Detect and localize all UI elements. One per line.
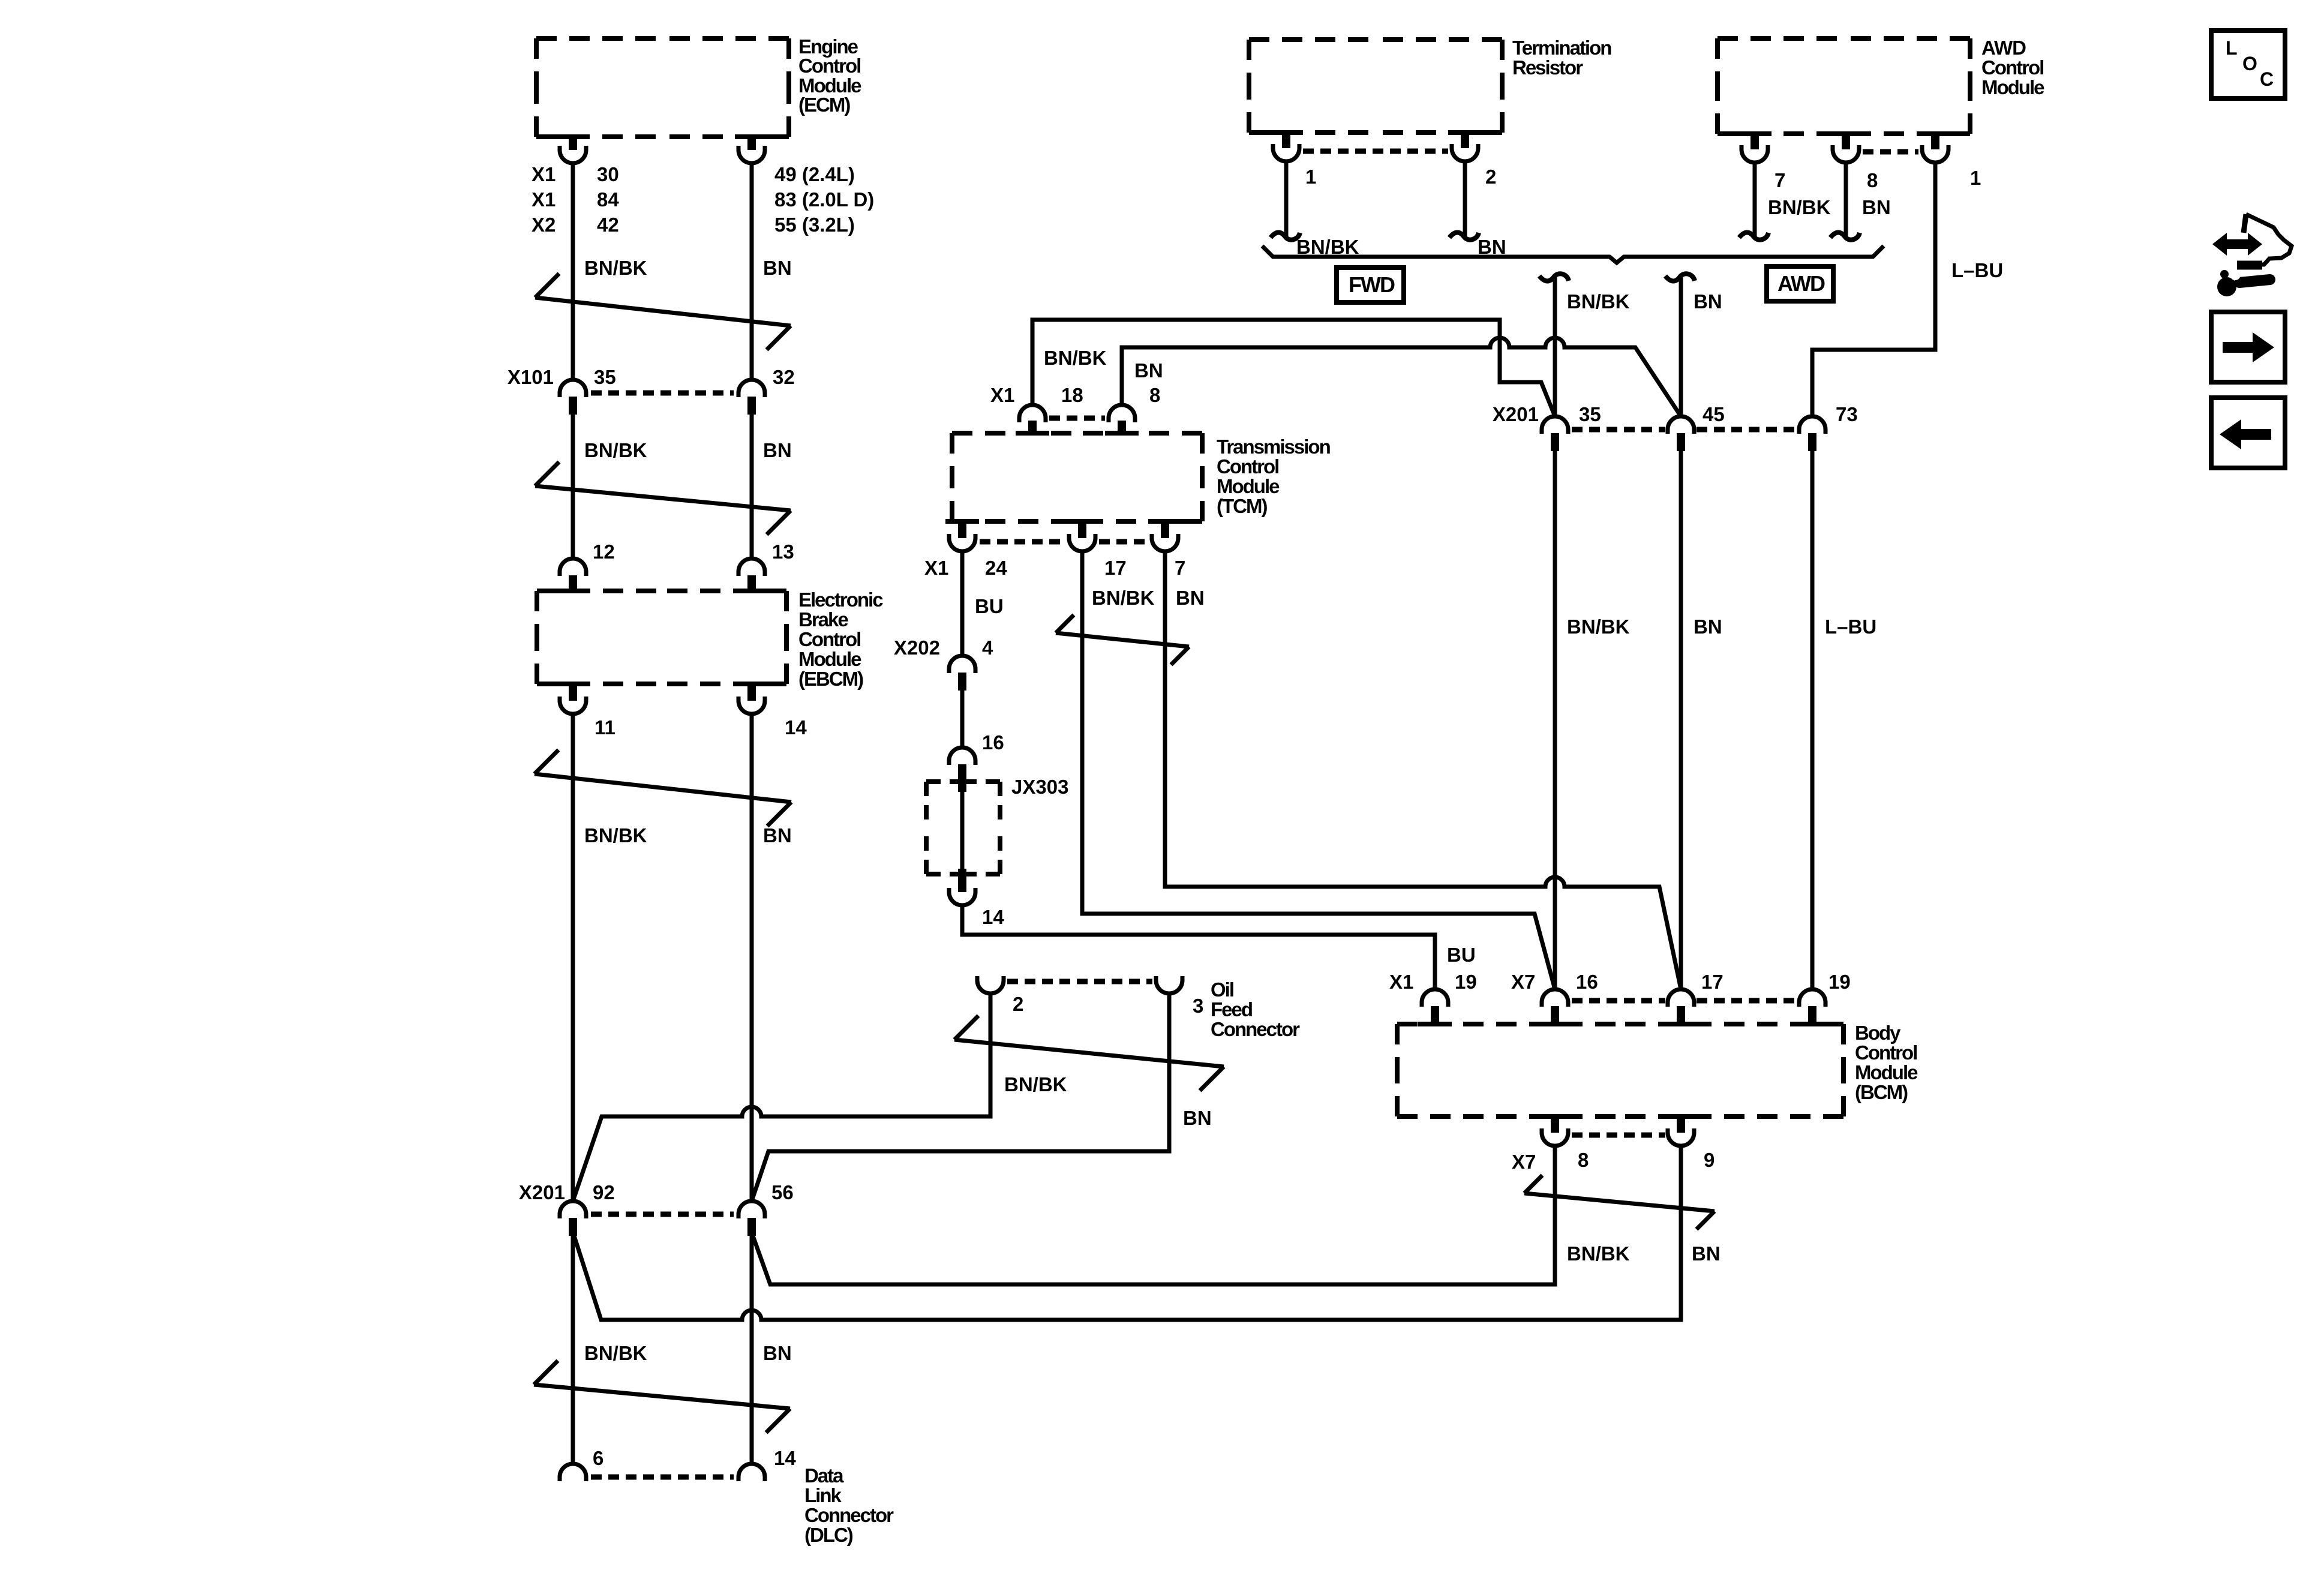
svg-text:84: 84 xyxy=(597,188,619,211)
dashed connector line termination resistor xyxy=(1303,149,1448,154)
svg-text:(EBCM): (EBCM) xyxy=(798,668,863,690)
label Oil Feed Connector xyxy=(1211,978,1300,1040)
label BN/BK xyxy=(584,439,647,461)
svg-text:9: 9 xyxy=(1704,1149,1715,1171)
label 4 xyxy=(982,637,993,659)
dashed connector line X201 left xyxy=(591,1212,734,1217)
svg-text:X1: X1 xyxy=(1389,971,1413,993)
wire L-BU X201-73 to BCM X7-19 xyxy=(1810,451,1815,989)
svg-text:55 (3.2L): 55 (3.2L) xyxy=(774,214,855,236)
label Engine Control Module (ECM) xyxy=(798,35,861,116)
BCM pin X7-9 connector xyxy=(1664,1116,1698,1146)
svg-text:Module: Module xyxy=(798,648,861,670)
svg-text:BN: BN xyxy=(1694,290,1722,313)
svg-text:17: 17 xyxy=(1701,971,1724,993)
wire BN TCM-8 to X201-45 xyxy=(1122,338,1681,416)
oil feed connector pin 2 xyxy=(977,976,1004,993)
inline connector X101 pin 32 xyxy=(738,380,765,415)
icon LOC box xyxy=(2211,31,2285,98)
label AWD Control Module xyxy=(1981,37,2044,98)
wire BN AWD-8 to bus xyxy=(1830,164,1860,240)
svg-text:8: 8 xyxy=(1578,1149,1589,1171)
BCM pin X7-17 connector xyxy=(1664,989,1698,1024)
svg-text:19: 19 xyxy=(1455,971,1477,993)
AWD pin 8 connector xyxy=(1829,134,1863,163)
svg-text:16: 16 xyxy=(982,731,1004,754)
label BN/BK xyxy=(1567,290,1630,313)
svg-text:7: 7 xyxy=(1175,557,1185,579)
wire BN/BK oil-2 to X201-92 junction xyxy=(573,995,990,1201)
label BN xyxy=(763,1342,792,1364)
module TCM box xyxy=(952,433,1202,521)
svg-text:73: 73 xyxy=(1836,403,1858,425)
EBCM pin 13 connector xyxy=(735,559,768,591)
label BN xyxy=(1183,1107,1212,1129)
label 45 xyxy=(1703,403,1725,425)
label 19 xyxy=(1828,971,1851,993)
svg-text:X7: X7 xyxy=(1511,971,1535,993)
svg-text:BN: BN xyxy=(1176,587,1205,609)
svg-text:O: O xyxy=(2242,53,2257,74)
label X7 xyxy=(1512,1151,1536,1173)
svg-text:BN: BN xyxy=(763,257,792,279)
svg-text:X1: X1 xyxy=(990,384,1014,406)
svg-text:7: 7 xyxy=(1774,169,1785,191)
svg-text:X101: X101 xyxy=(508,366,554,388)
label BN/BK xyxy=(1004,1073,1067,1095)
label X1 xyxy=(1389,971,1413,993)
AWD pin 1 connector xyxy=(1918,134,1952,163)
break mark TCM section xyxy=(1056,615,1189,665)
label BN xyxy=(1134,359,1163,382)
TCM pin X1-7 connector xyxy=(1148,521,1182,551)
svg-text:L: L xyxy=(2226,37,2238,59)
svg-text:(DLC): (DLC) xyxy=(804,1524,853,1546)
svg-text:35: 35 xyxy=(594,366,616,388)
wire BN termination-2 to bus xyxy=(1449,163,1479,240)
wire BU through JX303 xyxy=(960,783,965,874)
break mark BCM section xyxy=(1524,1175,1715,1229)
dashed connector line BCM bottom xyxy=(1572,1133,1665,1138)
svg-text:BN: BN xyxy=(1478,236,1506,258)
label 1 xyxy=(1970,167,1981,189)
wire BN/BK X201-35 to BCM X7-16 xyxy=(1553,451,1557,989)
svg-text:X7: X7 xyxy=(1512,1151,1536,1173)
wire BN/BK AWD-7 to bus xyxy=(1739,164,1768,240)
icon diagnostic double arrow xyxy=(2212,233,2262,256)
Termination Resistor pin 2 connector xyxy=(1448,133,1482,161)
svg-text:Module: Module xyxy=(1217,475,1280,497)
wire BN ECM-49 to X101-32 xyxy=(750,164,754,380)
inline connector X101 pin 35 xyxy=(560,380,586,415)
wire BN EBCM-14 to X201-56 xyxy=(750,715,754,1201)
label 8 xyxy=(1149,384,1160,406)
label L-BU xyxy=(1951,259,2003,281)
svg-text:35: 35 xyxy=(1579,403,1601,425)
svg-text:4: 4 xyxy=(982,637,993,659)
svg-text:Resistor: Resistor xyxy=(1512,56,1583,79)
TCM pin X1-24 connector xyxy=(945,521,979,551)
svg-text:BU: BU xyxy=(1447,944,1476,966)
svg-text:Oil: Oil xyxy=(1211,978,1233,1001)
svg-text:Feed: Feed xyxy=(1211,998,1252,1020)
connector DLC pin 14 xyxy=(738,1464,765,1481)
TCM pin X1-17 connector xyxy=(1065,521,1099,551)
ECM pin 30 connector xyxy=(556,137,590,163)
svg-text:Connector: Connector xyxy=(1211,1018,1300,1040)
svg-text:L–BU: L–BU xyxy=(1825,616,1876,638)
BCM pin X1-19 connector xyxy=(1418,989,1452,1024)
svg-text:(TCM): (TCM) xyxy=(1217,495,1267,517)
svg-text:X201: X201 xyxy=(519,1181,565,1203)
label ECM right pin rows 49/83/55 xyxy=(774,163,874,236)
svg-text:JX303: JX303 xyxy=(1011,776,1068,798)
svg-text:56: 56 xyxy=(771,1181,794,1203)
svg-text:Connector: Connector xyxy=(804,1504,894,1526)
wire BN/BK TCM-17 to BCM X7-16 xyxy=(1082,553,1555,989)
wire BN X201-45 to BCM X7-17 xyxy=(1679,451,1683,989)
svg-text:BN/BK: BN/BK xyxy=(584,257,647,279)
inline connector 16 at JX303 xyxy=(949,748,975,792)
wire BU JX303-14 to BCM X1-19 xyxy=(962,905,1435,989)
svg-text:Control: Control xyxy=(1855,1041,1917,1064)
EBCM pin 12 connector xyxy=(556,559,590,591)
svg-text:3: 3 xyxy=(1193,995,1203,1017)
label 16 xyxy=(982,731,1004,754)
svg-text:45: 45 xyxy=(1703,403,1725,425)
label BN/BK xyxy=(1768,196,1831,218)
svg-text:BN/BK: BN/BK xyxy=(1567,616,1630,638)
svg-text:14: 14 xyxy=(785,716,807,739)
svg-text:14: 14 xyxy=(774,1447,796,1469)
svg-text:X201: X201 xyxy=(1493,403,1539,425)
svg-text:2: 2 xyxy=(1013,993,1023,1015)
label 7 xyxy=(1774,169,1785,191)
svg-text:Transmission: Transmission xyxy=(1217,436,1331,458)
svg-text:16: 16 xyxy=(1576,971,1598,993)
svg-text:83 (2.0L D): 83 (2.0L D) xyxy=(774,188,874,211)
dashed connector line AWD xyxy=(1863,149,1918,155)
label BN xyxy=(1176,587,1205,609)
label BN xyxy=(1694,290,1722,313)
svg-text:92: 92 xyxy=(593,1181,615,1203)
wire BU X202-4 to JX303-16 xyxy=(960,691,965,748)
svg-text:X1: X1 xyxy=(532,163,556,185)
label 17 xyxy=(1701,971,1724,993)
inline connector X202 pin 4 xyxy=(949,656,975,691)
label 19 xyxy=(1455,971,1477,993)
svg-text:1: 1 xyxy=(1970,167,1981,189)
label 24 xyxy=(985,557,1007,579)
label X202 xyxy=(894,637,940,659)
label BN/BK xyxy=(584,257,647,279)
svg-text:BN/BK: BN/BK xyxy=(1004,1073,1067,1095)
break mark oil feed section xyxy=(954,1016,1224,1091)
label 13 xyxy=(772,541,794,563)
label 8 xyxy=(1867,169,1878,191)
svg-text:BN: BN xyxy=(1183,1107,1212,1129)
svg-text:(BCM): (BCM) xyxy=(1855,1081,1908,1103)
svg-text:BN/BK: BN/BK xyxy=(1567,1242,1630,1265)
svg-text:AWD: AWD xyxy=(1777,271,1825,296)
label BN/BK xyxy=(1044,347,1107,369)
label 14 xyxy=(785,716,807,739)
svg-text:L–BU: L–BU xyxy=(1951,259,2003,281)
label BN xyxy=(763,439,792,461)
svg-text:X1: X1 xyxy=(924,557,948,579)
svg-text:BN: BN xyxy=(763,1342,792,1364)
label X201 xyxy=(519,1181,565,1203)
module ECM box xyxy=(536,38,789,137)
label 2 xyxy=(1013,993,1023,1015)
svg-text:13: 13 xyxy=(772,541,794,563)
label 73 xyxy=(1836,403,1858,425)
icon back arrow box xyxy=(2211,398,2285,468)
svg-text:8: 8 xyxy=(1149,384,1160,406)
label 35 xyxy=(594,366,616,388)
label Termination Resistor xyxy=(1512,37,1611,79)
label Data Link Connector (DLC) xyxy=(804,1464,894,1546)
label 35 xyxy=(1579,403,1601,425)
dashed connector line TCM bottom xyxy=(980,539,1148,545)
wire BN TCM-7 to BCM X7-17 xyxy=(1165,553,1681,989)
svg-text:14: 14 xyxy=(982,906,1004,928)
svg-text:17: 17 xyxy=(1104,557,1127,579)
wire BU TCM-24 to X202-4 xyxy=(960,553,965,656)
label 17 xyxy=(1104,557,1127,579)
svg-text:BN: BN xyxy=(1694,616,1722,638)
icon forward arrow box xyxy=(2211,312,2285,382)
wire BN X201-56 to DLC-14 xyxy=(750,1236,754,1464)
icon wrench xyxy=(2217,269,2270,296)
label L-BU xyxy=(1825,616,1876,638)
svg-text:6: 6 xyxy=(593,1447,603,1469)
label 11 xyxy=(594,716,615,739)
EBCM pin 11 connector xyxy=(556,684,590,714)
wire BN/BK X201-92 to BCM X7-9 xyxy=(574,1147,1681,1320)
dashed connector line oil feed xyxy=(1007,979,1152,984)
label Electronic Brake Control Module (EBCM) xyxy=(798,589,883,690)
label BN/BK xyxy=(1296,236,1359,258)
connector DLC pin 6 xyxy=(560,1464,586,1481)
label BN xyxy=(763,824,792,846)
break mark ECM section xyxy=(535,274,791,350)
BCM pin X7-19 connector xyxy=(1795,989,1829,1024)
label BN/BK xyxy=(1567,616,1630,638)
wire L-BU AWD-1 to X201-73 xyxy=(1812,164,1935,416)
inline connector X201 pin 73 xyxy=(1799,416,1825,451)
label 9 xyxy=(1704,1149,1715,1171)
svg-text:Link: Link xyxy=(804,1484,842,1506)
svg-text:BN/BK: BN/BK xyxy=(1044,347,1107,369)
wire BN/BK ECM-30 to X101-35 xyxy=(571,164,575,380)
svg-text:AWD: AWD xyxy=(1981,37,2026,59)
label 14 xyxy=(774,1447,796,1469)
wire BN/BK termination-1 to bus xyxy=(1271,163,1300,240)
svg-text:Data: Data xyxy=(804,1464,844,1487)
label BU xyxy=(1447,944,1476,966)
label 14 xyxy=(982,906,1004,928)
label BN/BK xyxy=(584,824,647,846)
svg-text:BN: BN xyxy=(1134,359,1163,382)
AWD pin 7 connector xyxy=(1738,134,1771,163)
svg-text:Body: Body xyxy=(1855,1022,1901,1044)
module EBCM box xyxy=(537,591,786,684)
svg-text:BU: BU xyxy=(975,595,1004,617)
svg-text:Brake: Brake xyxy=(798,608,848,631)
Termination Resistor pin 1 connector xyxy=(1269,133,1303,161)
dashed connector line X201 right xyxy=(1572,427,1797,433)
CAN bus brace xyxy=(1262,246,1884,263)
svg-text:BN/BK: BN/BK xyxy=(1092,587,1155,609)
svg-text:24: 24 xyxy=(985,557,1007,579)
svg-text:BN/BK: BN/BK xyxy=(1567,290,1630,313)
module Termination Resistor box xyxy=(1249,40,1502,133)
label 2 xyxy=(1485,166,1496,188)
ECM pin 49 connector xyxy=(735,137,768,163)
svg-text:BN/BK: BN/BK xyxy=(584,824,647,846)
svg-text:BN: BN xyxy=(763,824,792,846)
svg-text:Termination: Termination xyxy=(1512,37,1611,59)
dashed connector line TCM top xyxy=(1049,416,1105,421)
svg-text:49 (2.4L): 49 (2.4L) xyxy=(774,163,855,185)
break mark DLC section xyxy=(534,1361,790,1433)
dashed connector line BCM top xyxy=(1572,998,1797,1004)
svg-text:C: C xyxy=(2260,68,2274,90)
svg-text:Control: Control xyxy=(1981,56,2043,79)
label X7 xyxy=(1511,971,1535,993)
svg-text:X1: X1 xyxy=(532,188,556,211)
label BN xyxy=(1478,236,1506,258)
TCM pin X1-18 connector xyxy=(1016,405,1049,433)
label BN xyxy=(1692,1242,1721,1265)
svg-text:12: 12 xyxy=(593,541,615,563)
wire BN X201-56 to BCM X7-8 xyxy=(753,1147,1555,1284)
label 8 xyxy=(1578,1149,1589,1171)
dashed connector line X101 xyxy=(591,391,734,396)
svg-text:BN/BK: BN/BK xyxy=(1768,196,1831,218)
svg-text:1: 1 xyxy=(1305,166,1316,188)
svg-text:19: 19 xyxy=(1828,971,1851,993)
BCM pin X7-16 connector xyxy=(1538,989,1572,1024)
label 12 xyxy=(593,541,615,563)
svg-text:2: 2 xyxy=(1485,166,1496,188)
module AWD Control Module box xyxy=(1718,38,1970,134)
label 56 xyxy=(771,1181,794,1203)
wire BN bus drop to X201-45 xyxy=(1665,274,1695,416)
break mark EBCM section xyxy=(535,750,791,826)
svg-text:Module: Module xyxy=(1855,1061,1918,1083)
svg-text:BN/BK: BN/BK xyxy=(584,439,647,461)
dashed connector line DLC xyxy=(591,1475,734,1480)
label X1 xyxy=(924,557,948,579)
svg-text:Control: Control xyxy=(798,628,860,650)
label box AWD xyxy=(1767,266,1833,301)
label BN/BK xyxy=(1092,587,1155,609)
svg-text:BN: BN xyxy=(763,439,792,461)
inline connector X201 pin 35 xyxy=(1542,416,1568,451)
label ECM left pin rows X1 30 / X1 84 / X2 42 xyxy=(532,163,619,236)
wire BN/BK TCM-18 to X201-35 xyxy=(1032,320,1555,416)
svg-text:32: 32 xyxy=(773,366,795,388)
inline connector X201 pin 45 xyxy=(1668,416,1694,451)
label 18 xyxy=(1061,384,1083,406)
label 7 xyxy=(1175,557,1185,579)
inline connector X201 pin 92 xyxy=(560,1201,586,1236)
wire BN/BK bus drop to X201-35 xyxy=(1539,274,1569,416)
label 32 xyxy=(773,366,795,388)
svg-text:BN/BK: BN/BK xyxy=(584,1342,647,1364)
wire BN/BK X201-92 to DLC-6 xyxy=(571,1236,575,1464)
label X1 xyxy=(990,384,1014,406)
label BN xyxy=(1694,616,1722,638)
svg-text:11: 11 xyxy=(594,716,615,739)
svg-text:Control: Control xyxy=(1217,455,1278,478)
svg-text:30: 30 xyxy=(597,163,619,185)
label X201 xyxy=(1493,403,1539,425)
svg-text:Control: Control xyxy=(798,55,860,77)
label X101 xyxy=(508,366,554,388)
EBCM pin 14 connector xyxy=(735,684,768,714)
label BN xyxy=(763,257,792,279)
JX303 output connector xyxy=(949,869,975,905)
svg-text:42: 42 xyxy=(597,214,619,236)
label BN/BK xyxy=(1567,1242,1630,1265)
svg-text:FWD: FWD xyxy=(1349,272,1395,297)
wire BN/BK EBCM-11 to X201-92 xyxy=(571,715,575,1201)
icon diagnostic outline xyxy=(2237,214,2292,265)
svg-text:18: 18 xyxy=(1061,384,1083,406)
svg-text:BN: BN xyxy=(1692,1242,1721,1265)
break mark X101 section xyxy=(535,462,791,535)
inline connector X201 pin 56 xyxy=(738,1201,765,1236)
wire BN/BK X101-35 to EBCM-12 xyxy=(571,415,575,559)
label BN/BK xyxy=(584,1342,647,1364)
BCM pin X7-8 connector xyxy=(1538,1116,1572,1146)
label 1 xyxy=(1305,166,1316,188)
svg-text:X2: X2 xyxy=(532,214,556,236)
label 16 xyxy=(1576,971,1598,993)
label BN xyxy=(1862,196,1891,218)
svg-text:BN/BK: BN/BK xyxy=(1296,236,1359,258)
label Transmission Control Module (TCM) xyxy=(1217,436,1331,517)
label Body Control Module (BCM) xyxy=(1855,1022,1918,1103)
TCM pin X1-8 connector xyxy=(1105,405,1139,433)
wire BN oil-3 to X201-56 junction xyxy=(752,995,1169,1201)
wire BN X101-32 to EBCM-13 xyxy=(750,415,754,559)
svg-text:(ECM): (ECM) xyxy=(798,94,850,116)
svg-text:Electronic: Electronic xyxy=(798,589,883,611)
svg-text:Module: Module xyxy=(1981,76,2044,98)
label 6 xyxy=(593,1447,603,1469)
svg-text:X202: X202 xyxy=(894,637,940,659)
splice pack JX303 box xyxy=(926,782,1000,874)
label JX303 xyxy=(1011,776,1068,798)
label 3 xyxy=(1193,995,1203,1017)
svg-text:8: 8 xyxy=(1867,169,1878,191)
label 92 xyxy=(593,1181,615,1203)
label box FWD xyxy=(1337,268,1404,302)
label BU xyxy=(975,595,1004,617)
module BCM box xyxy=(1397,1024,1843,1116)
svg-text:BN: BN xyxy=(1862,196,1891,218)
oil feed connector pin 3 xyxy=(1156,976,1182,993)
